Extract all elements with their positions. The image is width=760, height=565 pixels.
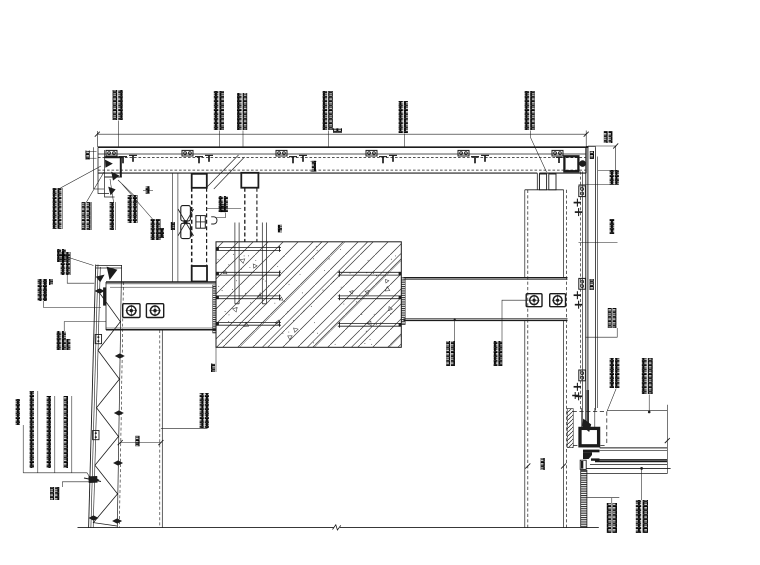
thin hanger rods xyxy=(172,174,174,283)
hanger column B hidden edges xyxy=(244,188,246,242)
column width dim 150 xyxy=(525,463,530,468)
overall top dimension line xyxy=(97,133,586,135)
beam end bearing plate xyxy=(103,287,106,305)
mullion dim text xyxy=(590,279,594,290)
left label: lower edge note xyxy=(57,249,61,262)
right label: 1mm aluminium note xyxy=(610,219,615,234)
leader to closure label xyxy=(587,497,619,499)
dim 150 between studs xyxy=(120,442,161,444)
weld arrow on corner vertical xyxy=(105,160,113,168)
dim text 50 xyxy=(590,151,594,159)
floor line xyxy=(78,527,334,529)
band-to-column step verticals xyxy=(536,173,538,190)
facade outer skin lines xyxy=(89,265,96,528)
wall column left edges xyxy=(524,190,526,278)
bottom-left label: 1.5mm galvanized sheet xyxy=(47,396,51,468)
dim text 40 and 408 xyxy=(171,222,175,230)
stud verticals below beam xyxy=(161,330,163,528)
bottom-left label: 3mm panel xyxy=(16,399,20,425)
bottom label: 2mm closure panel xyxy=(607,503,612,533)
ceiling band left end verticals xyxy=(97,147,99,183)
top label: aluminium panel note 1 xyxy=(113,90,118,120)
label cluster connector line xyxy=(23,473,91,479)
large anchor bolt block xyxy=(88,476,97,483)
vertical dim line right xyxy=(666,405,668,474)
bottom-left label: main steel I-beam xyxy=(30,391,34,468)
embedded plates right group xyxy=(338,271,401,273)
leader: post-anchor bolt label xyxy=(454,318,456,320)
facade connector boxes on left line xyxy=(95,335,101,344)
weld arrow on corner bottom xyxy=(111,172,119,181)
frame bottom glazing profile xyxy=(583,450,600,453)
mid-left label: anchor bolt note xyxy=(61,252,65,275)
window sill lines xyxy=(600,447,668,449)
mullion lines into frame xyxy=(581,408,583,427)
floor line break mark xyxy=(333,525,341,530)
hanger column A hidden edges xyxy=(191,188,193,266)
left label: C-channel hanger note xyxy=(53,188,57,229)
left label: corner angle note xyxy=(151,219,155,240)
hanger column A bottom connector box xyxy=(192,266,207,282)
turnbuckle body upper capsule xyxy=(181,206,191,221)
leader: galvanized plate label xyxy=(502,300,526,366)
beam bolt plate right 1 xyxy=(526,294,542,307)
turnbuckle cross brace xyxy=(178,209,194,236)
right label: packing note (top) xyxy=(604,131,608,143)
turnbuckle body lower capsule xyxy=(181,223,191,238)
clip above frame xyxy=(574,392,576,399)
leader diagonals to hanger column xyxy=(208,155,239,187)
top label: ceiling panel note xyxy=(323,91,328,130)
tiny anchor label M16 xyxy=(278,225,282,233)
hanger column A top connector box xyxy=(192,174,207,188)
concrete slab with hatch xyxy=(212,242,592,352)
center label: adjusting bolt note xyxy=(219,196,223,212)
hidden blocking rectangle dashed xyxy=(573,411,608,413)
top dimension text xyxy=(333,128,342,132)
fire-stop hatched strip xyxy=(567,409,573,448)
bottom-left label: edge trim note xyxy=(50,487,54,500)
mid-left label: I-beam note xyxy=(38,279,42,301)
right label: sealant note xyxy=(610,170,614,185)
mullion tube edges xyxy=(580,172,582,412)
frame anchor arrow xyxy=(582,419,591,432)
right steel beam web xyxy=(404,277,568,279)
corner weld dot xyxy=(579,160,586,167)
small dim on band (412) xyxy=(311,160,317,162)
mid-left label: M12 bolt note xyxy=(57,331,61,350)
top label: steel tube frame note xyxy=(214,91,219,130)
wall column top edge xyxy=(525,189,564,191)
ceiling band bottom chord xyxy=(98,172,537,174)
bottom label: low-reflect glass xyxy=(636,500,641,533)
cap weld arrow small xyxy=(96,275,105,283)
mullion clip groups xyxy=(579,186,586,197)
block bottom leader and text xyxy=(215,347,217,372)
suspended ceiling band top chord xyxy=(98,146,589,148)
cap weld arrow large xyxy=(107,267,118,280)
right label: calcium silicate board note xyxy=(610,358,614,388)
leader fan to left label cluster xyxy=(61,166,102,188)
wall column right edges xyxy=(563,190,565,278)
leader to adjuster label xyxy=(216,213,226,218)
left steel beam web xyxy=(106,281,216,283)
facade bolt diamonds left line xyxy=(95,288,105,293)
ceiling hanger clip groups along band xyxy=(106,150,117,156)
bottom-left label: steel frame connection xyxy=(64,396,68,468)
top label: hanger note xyxy=(237,93,242,130)
60 dim near corner xyxy=(143,189,153,191)
glass leader dot xyxy=(640,467,643,470)
tie line between hangers with dim xyxy=(207,207,242,209)
left label: ceiling adapter note xyxy=(110,202,114,230)
window frame steel tube xyxy=(580,428,599,445)
embedded plates left group xyxy=(217,247,282,249)
panel closure ladder strip xyxy=(581,470,587,527)
ceiling edge corner closure xyxy=(93,147,95,189)
left label: 2mm aluminium ceiling note xyxy=(128,195,132,223)
top label: 3mm aluminium sheet note xyxy=(399,101,403,133)
embedded anchor bars into slab xyxy=(234,223,236,304)
beam bolt plate left 2 xyxy=(146,304,163,318)
corner trim arrow xyxy=(108,187,115,196)
serrated bearing strip right xyxy=(401,278,405,325)
band-to-column connector boxes xyxy=(539,174,546,190)
leader: galvanized sheet + insulation label xyxy=(161,427,208,429)
serrated bearing strip left xyxy=(213,285,217,333)
small dim at band left (35) xyxy=(88,151,97,153)
adjuster plate with cross xyxy=(196,216,205,229)
top label: edge panel note xyxy=(525,91,530,130)
ceiling band dashed liner lower xyxy=(98,169,586,171)
right label: low-e glass note xyxy=(642,358,647,394)
sill line to dim xyxy=(607,410,667,412)
hook clip xyxy=(211,217,217,224)
facade top cap rail xyxy=(96,264,123,266)
beam bolt plate left 1 xyxy=(123,304,140,318)
facade inner boundary xyxy=(117,282,121,528)
ceiling band dashed liner upper xyxy=(98,157,586,159)
mullion corner box xyxy=(564,156,578,171)
ceiling band right end vertical xyxy=(585,147,587,173)
corner step trim xyxy=(98,183,109,194)
right label: 3mm aluminium panel xyxy=(608,308,612,328)
glazing bead piece xyxy=(580,460,586,469)
left label: hanger connector note xyxy=(82,202,86,230)
top dim extension right xyxy=(588,145,617,147)
outer skin lines xyxy=(594,147,596,410)
insulation zigzag xyxy=(93,293,120,526)
hanger column B top connector box xyxy=(241,173,258,188)
beam bolt plate right 2 xyxy=(550,294,566,307)
facade bolt diamonds right line xyxy=(115,353,125,358)
